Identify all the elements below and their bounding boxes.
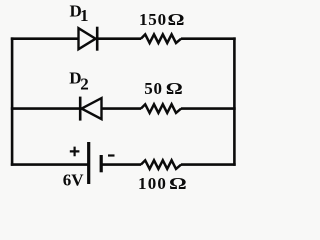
svg-text:1: 1 bbox=[80, 6, 89, 25]
svg-text:6V: 6V bbox=[63, 170, 85, 189]
svg-text:Ω: Ω bbox=[169, 174, 187, 193]
svg-text:Ω: Ω bbox=[166, 80, 183, 99]
svg-text:50: 50 bbox=[144, 79, 163, 98]
svg-text:100: 100 bbox=[138, 174, 167, 193]
svg-text:Ω: Ω bbox=[168, 11, 185, 30]
svg-text:2: 2 bbox=[80, 75, 89, 94]
svg-text:150: 150 bbox=[139, 10, 167, 29]
